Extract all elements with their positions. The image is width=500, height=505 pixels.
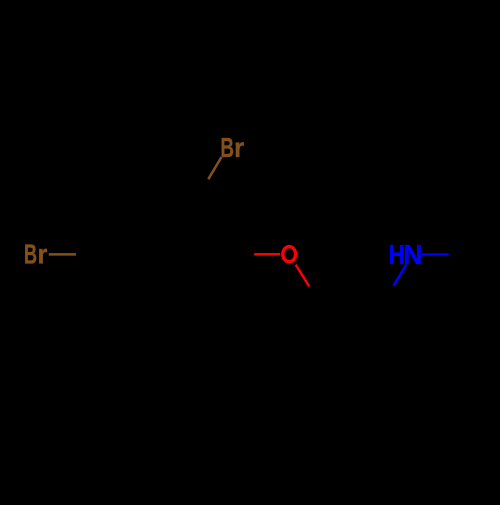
bond O-CH2 half-bond [296, 265, 310, 287]
bromine label Br (left, para position) [24, 239, 48, 270]
oxygen label O (ether) [283, 247, 296, 262]
bond Br(top)-C half-bond [208, 157, 221, 179]
svg-text:r: r [37, 239, 47, 270]
svg-text:B: B [24, 239, 37, 270]
bond N-CH half-bond [394, 264, 407, 285]
svg-text:B: B [220, 132, 234, 163]
bond C(aryl)-O half-bond [254, 253, 280, 256]
bromine label Br (top, ortho position) [220, 132, 244, 163]
bond Br(left)-C half-bond [49, 253, 76, 256]
svg-text:r: r [234, 132, 244, 163]
amine label HN [389, 239, 423, 270]
bond N-CH3 half-bond [422, 253, 449, 256]
